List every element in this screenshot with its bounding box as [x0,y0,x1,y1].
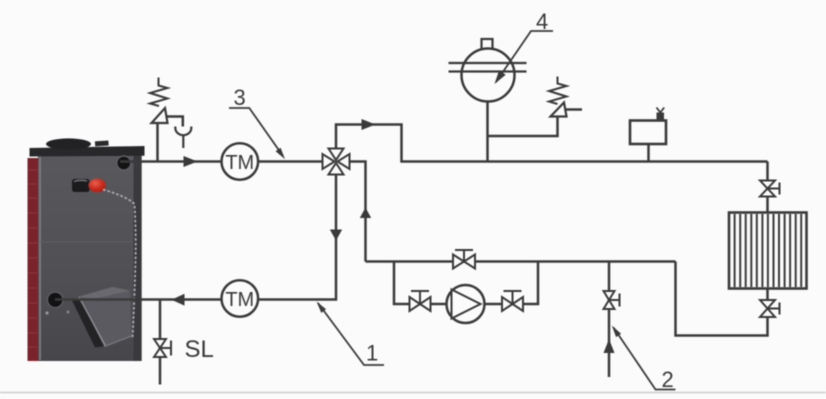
flow arrow make-up up [604,339,615,353]
boiler chimney collar [46,138,91,149]
pump suction valve [410,291,431,311]
wire: tank tee to safety valve SV2 [488,117,558,137]
drain valve SL [154,339,171,357]
radiator supply valve [760,181,780,197]
boiler body right side [134,156,142,362]
make-up valve [604,291,620,309]
wire: drop to radiator top valve [766,162,769,213]
pump P1 [447,285,485,323]
four-way mixing valve [323,149,350,175]
svg-text:1: 1 [366,341,378,366]
svg-text:SL: SL [185,336,214,363]
svg-text:2: 2 [662,367,674,392]
svg-text:TM: TM [225,152,254,174]
boiler red side strip [28,158,39,361]
label 3 leader [229,108,283,156]
wire: mixing valve right stub down [348,162,366,262]
expansion tank [449,39,527,102]
wire: mid return header [366,260,676,263]
drain funnel [175,127,191,149]
boiler knob hub [72,179,90,192]
wire: supply line boiler to mixing valve [120,160,323,163]
radiator return valve [760,300,780,317]
label 2 leader [614,328,676,390]
boiler panel seam [38,241,133,243]
radiator [729,213,807,289]
wire: mixing valve bottom to boiler return [55,174,336,300]
wire: expansion tank stem [486,100,489,162]
svg-text:3: 3 [234,85,246,110]
wire: make-up water line [608,262,611,378]
boiler top port [117,156,131,170]
wire: valve top jog and main supply header [336,125,768,162]
pump discharge valve [502,291,523,311]
wire: drain branch SL [159,300,162,385]
wire: pump branch loop [394,262,538,305]
wire: air vent stem [647,143,650,162]
boiler red knob [88,178,105,192]
bypass valve [453,250,475,269]
svg-text:4: 4 [536,9,548,34]
svg-text:TM: TM [225,289,254,311]
label 1 leader [318,303,384,365]
wire: radiator bottom to return header [676,262,768,336]
boiler bottom port [47,292,63,308]
thermometer TM2 [222,280,259,317]
label 4 leader [496,31,553,82]
floor line [0,392,826,394]
boiler photo [28,138,145,361]
thermometer TM1 [222,143,259,180]
boiler flap opening [72,298,107,348]
boiler flap plate [79,291,132,347]
flow arrow return left [172,294,185,306]
automatic air vent [630,108,666,145]
flow arrow down to boiler return [330,230,342,241]
flow arrow jog right [362,119,376,130]
flow arrow supply right [184,156,198,167]
wire: safety valve SV1 branch [156,123,159,162]
safety valve SV2 [549,77,582,117]
boiler chain [103,190,136,339]
flue detail [95,140,109,146]
flow arrow up into mixing valve [360,208,371,219]
safety valve SV1 [150,78,183,127]
boiler body front [38,156,134,362]
boiler top slab [30,146,145,157]
